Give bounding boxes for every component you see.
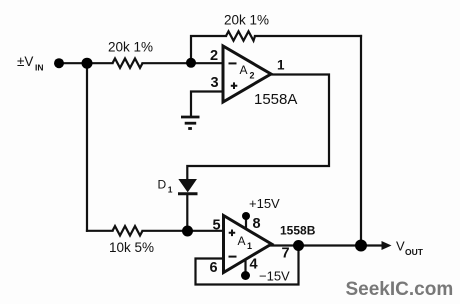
node pin2 junction dot bbox=[186, 58, 196, 68]
svg-text:3: 3 bbox=[211, 75, 219, 91]
svg-text:V: V bbox=[396, 239, 405, 254]
wire pin3 to ground bbox=[191, 92, 223, 116]
svg-text:A: A bbox=[238, 234, 246, 248]
ground bbox=[181, 117, 200, 129]
svg-text:7: 7 bbox=[282, 246, 290, 262]
wire diode cathode to node bbox=[186, 195, 188, 231]
node output junction dot bbox=[355, 240, 367, 252]
diode D1 bbox=[158, 178, 198, 195]
svg-text:1: 1 bbox=[247, 241, 252, 251]
+15V supply pin 8 bbox=[242, 196, 280, 220]
svg-text:SeekIC.com: SeekIC.com bbox=[346, 279, 454, 300]
wire input branch vertical bbox=[86, 63, 88, 231]
node input branch dot bbox=[82, 58, 93, 69]
wire pin2 node to top feedback bbox=[191, 36, 226, 63]
op-amp U1 A2 1558A bbox=[210, 46, 297, 108]
node input terminal dot bbox=[54, 58, 64, 68]
svg-text:5: 5 bbox=[213, 218, 221, 234]
wire pin1 loop to diode bbox=[187, 75, 329, 180]
svg-text:±V: ±V bbox=[17, 54, 33, 69]
node output pin7 dot bbox=[293, 240, 304, 251]
watermark SeekIC.com bbox=[346, 279, 454, 300]
svg-text:D: D bbox=[158, 178, 167, 192]
resistor R2 20k 1% feedback bbox=[224, 13, 269, 41]
op-amp U2 A1 1558B bbox=[210, 216, 316, 277]
svg-text:−15V: −15V bbox=[259, 269, 290, 284]
svg-text:OUT: OUT bbox=[405, 247, 424, 257]
svg-text:1: 1 bbox=[277, 58, 285, 73]
svg-text:20k 1%: 20k 1% bbox=[108, 40, 153, 55]
wire right vertical to output bbox=[360, 36, 362, 246]
wire A1 feedback loop to pin 6 bbox=[196, 246, 299, 285]
svg-text:10k 5%: 10k 5% bbox=[109, 240, 154, 255]
svg-text:1558B: 1558B bbox=[280, 224, 316, 238]
svg-text:2: 2 bbox=[250, 71, 255, 81]
wire pin8 supply stub bbox=[245, 217, 247, 229]
svg-text:IN: IN bbox=[35, 63, 44, 73]
svg-text:2: 2 bbox=[210, 48, 218, 64]
arrow VOUT bbox=[382, 239, 424, 258]
svg-text:1: 1 bbox=[168, 185, 173, 195]
-15V supply pin 4 bbox=[241, 269, 290, 284]
svg-text:1558A: 1558A bbox=[254, 91, 297, 108]
svg-text:A: A bbox=[240, 63, 248, 77]
node diode junction dot bbox=[182, 226, 193, 237]
wire output line bbox=[269, 244, 383, 246]
resistor R3 10k 5% bbox=[109, 226, 154, 255]
svg-text:6: 6 bbox=[210, 260, 218, 276]
wire top feedback right segment bbox=[255, 35, 361, 37]
input label ±VIN bbox=[17, 54, 44, 73]
svg-text:20k 1%: 20k 1% bbox=[224, 13, 269, 28]
resistor R1 20k 1% input bbox=[108, 40, 153, 68]
wire lower line to pin 5 bbox=[87, 230, 224, 232]
svg-text:+15V: +15V bbox=[249, 196, 280, 211]
svg-text:4: 4 bbox=[250, 257, 258, 273]
wire pin4 supply stub bbox=[244, 259, 246, 275]
wire input line bbox=[59, 62, 223, 64]
svg-text:8: 8 bbox=[253, 216, 261, 232]
